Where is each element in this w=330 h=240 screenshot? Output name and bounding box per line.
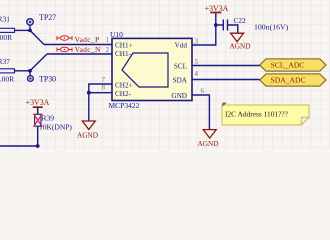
- wire +3V3A to R39: [37, 107, 39, 114]
- svg-text:AGND: AGND: [230, 42, 251, 51]
- svg-text:CH1+: CH1+: [115, 42, 133, 50]
- wire pin4 SDA: [192, 79, 260, 81]
- junction node R39 bottom: [36, 144, 40, 148]
- svg-text:AGND: AGND: [77, 131, 98, 140]
- wire CH2 to ground: [88, 93, 90, 121]
- wire R31 to junction: [15, 29, 31, 31]
- svg-text:+3V3A: +3V3A: [205, 4, 229, 13]
- wire C22 to ground: [228, 25, 238, 33]
- ground AGND (pin6): [198, 130, 219, 148]
- resistor R37: [0, 57, 15, 83]
- svg-text:U10: U10: [110, 30, 123, 39]
- svg-text:Vadc_P: Vadc_P: [75, 35, 100, 44]
- svg-text:AGND: AGND: [198, 139, 219, 148]
- svg-text:5: 5: [195, 58, 199, 66]
- svg-text:SCL: SCL: [174, 63, 187, 71]
- svg-text:CH2-: CH2-: [115, 90, 132, 98]
- test point TP30: [28, 71, 57, 84]
- svg-text:Vdd: Vdd: [175, 42, 188, 50]
- differential pair directive on Vadc_N: [57, 47, 72, 51]
- note I2C address: [222, 103, 309, 125]
- junction node (R37/TP30): [28, 69, 32, 73]
- wire diagonal to CH1-: [30, 54, 47, 71]
- ADC symbol inside U10: [122, 53, 168, 87]
- svg-text:3: 3: [195, 38, 199, 46]
- svg-text:R39: R39: [42, 114, 55, 123]
- svg-text:MCP3422: MCP3422: [109, 101, 140, 110]
- port SCL_ADC: [260, 59, 326, 71]
- svg-text:R31: R31: [0, 14, 10, 23]
- svg-text:SDA_ADC: SDA_ADC: [270, 76, 305, 85]
- svg-text:1.00R: 1.00R: [0, 33, 12, 42]
- wire pin6 GND to ground: [192, 95, 209, 130]
- resistor R39 (DNP): [34, 114, 73, 132]
- svg-text:2: 2: [106, 46, 110, 54]
- svg-text:100n(16V): 100n(16V): [254, 22, 289, 31]
- svg-text:SCL_ADC: SCL_ADC: [271, 61, 305, 70]
- svg-text:8: 8: [102, 84, 106, 92]
- op-amp/ADC IC U10: [109, 30, 193, 110]
- wire pin3 Vdd to +3V3A: [192, 13, 216, 45]
- svg-text:TP27: TP27: [39, 13, 56, 22]
- test point TP27: [27, 13, 56, 31]
- svg-text:R37: R37: [0, 57, 10, 66]
- ground AGND (CH2): [77, 121, 98, 140]
- power port +3V3A (R39): [26, 98, 50, 107]
- ground AGND (C22): [230, 33, 251, 51]
- svg-text:CH1-: CH1-: [115, 50, 132, 58]
- wire net Vadc_P: [44, 44, 112, 46]
- svg-text:10K(DNP): 10K(DNP): [39, 122, 72, 131]
- svg-text:Vadc_N: Vadc_N: [75, 45, 101, 54]
- svg-text:+3V3A: +3V3A: [26, 98, 50, 107]
- port SDA_ADC: [260, 74, 326, 86]
- svg-text:TP30: TP30: [39, 74, 56, 83]
- wire diagonal to CH1+: [30, 30, 44, 44]
- svg-text:6: 6: [201, 87, 205, 95]
- resistor R31: [0, 14, 15, 42]
- wire net Vadc_N: [47, 53, 112, 55]
- junction node CH2: [87, 91, 91, 95]
- junction node (R31/TP27): [28, 29, 32, 33]
- capacitor C22: [223, 16, 288, 31]
- svg-text:1: 1: [106, 36, 110, 44]
- differential pair directive on Vadc_P: [57, 36, 72, 40]
- wire pin8 CH2-: [89, 92, 112, 94]
- power port +3V3A (top): [205, 4, 229, 13]
- wire to C22: [216, 24, 223, 26]
- wire pin5 SCL: [192, 65, 260, 67]
- svg-text:1.00R: 1.00R: [0, 75, 14, 84]
- svg-text:GND: GND: [171, 92, 187, 100]
- svg-text:SDA: SDA: [173, 77, 188, 85]
- sheet background: [0, 0, 330, 150]
- svg-text:CH2+: CH2+: [115, 82, 133, 90]
- wire R39 to net: [0, 126, 38, 146]
- svg-text:C22: C22: [234, 16, 247, 25]
- svg-text:4: 4: [195, 70, 199, 78]
- svg-text:I2C Address 1101???: I2C Address 1101???: [225, 110, 288, 119]
- wire pin7 CH2+: [89, 84, 112, 93]
- junction node at C22 tap: [214, 23, 218, 27]
- wire R37 to junction: [15, 70, 31, 72]
